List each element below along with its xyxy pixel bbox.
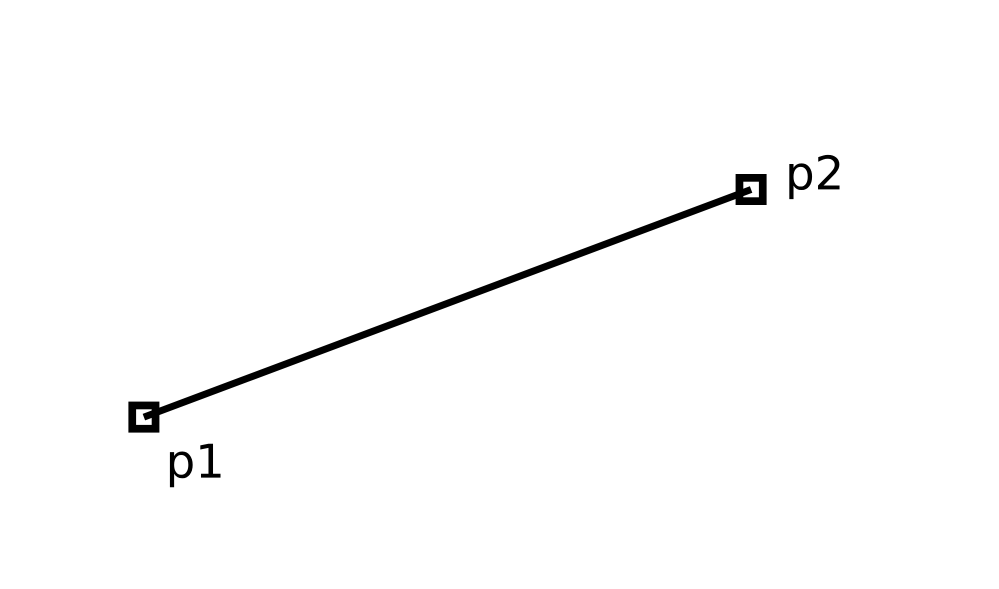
label p2 — [789, 155, 839, 199]
wire line segment p1-p2 — [144, 190, 751, 418]
marker square at node p2 — [739, 178, 762, 201]
label p1 — [170, 444, 221, 488]
marker square at node p1 — [132, 405, 155, 428]
